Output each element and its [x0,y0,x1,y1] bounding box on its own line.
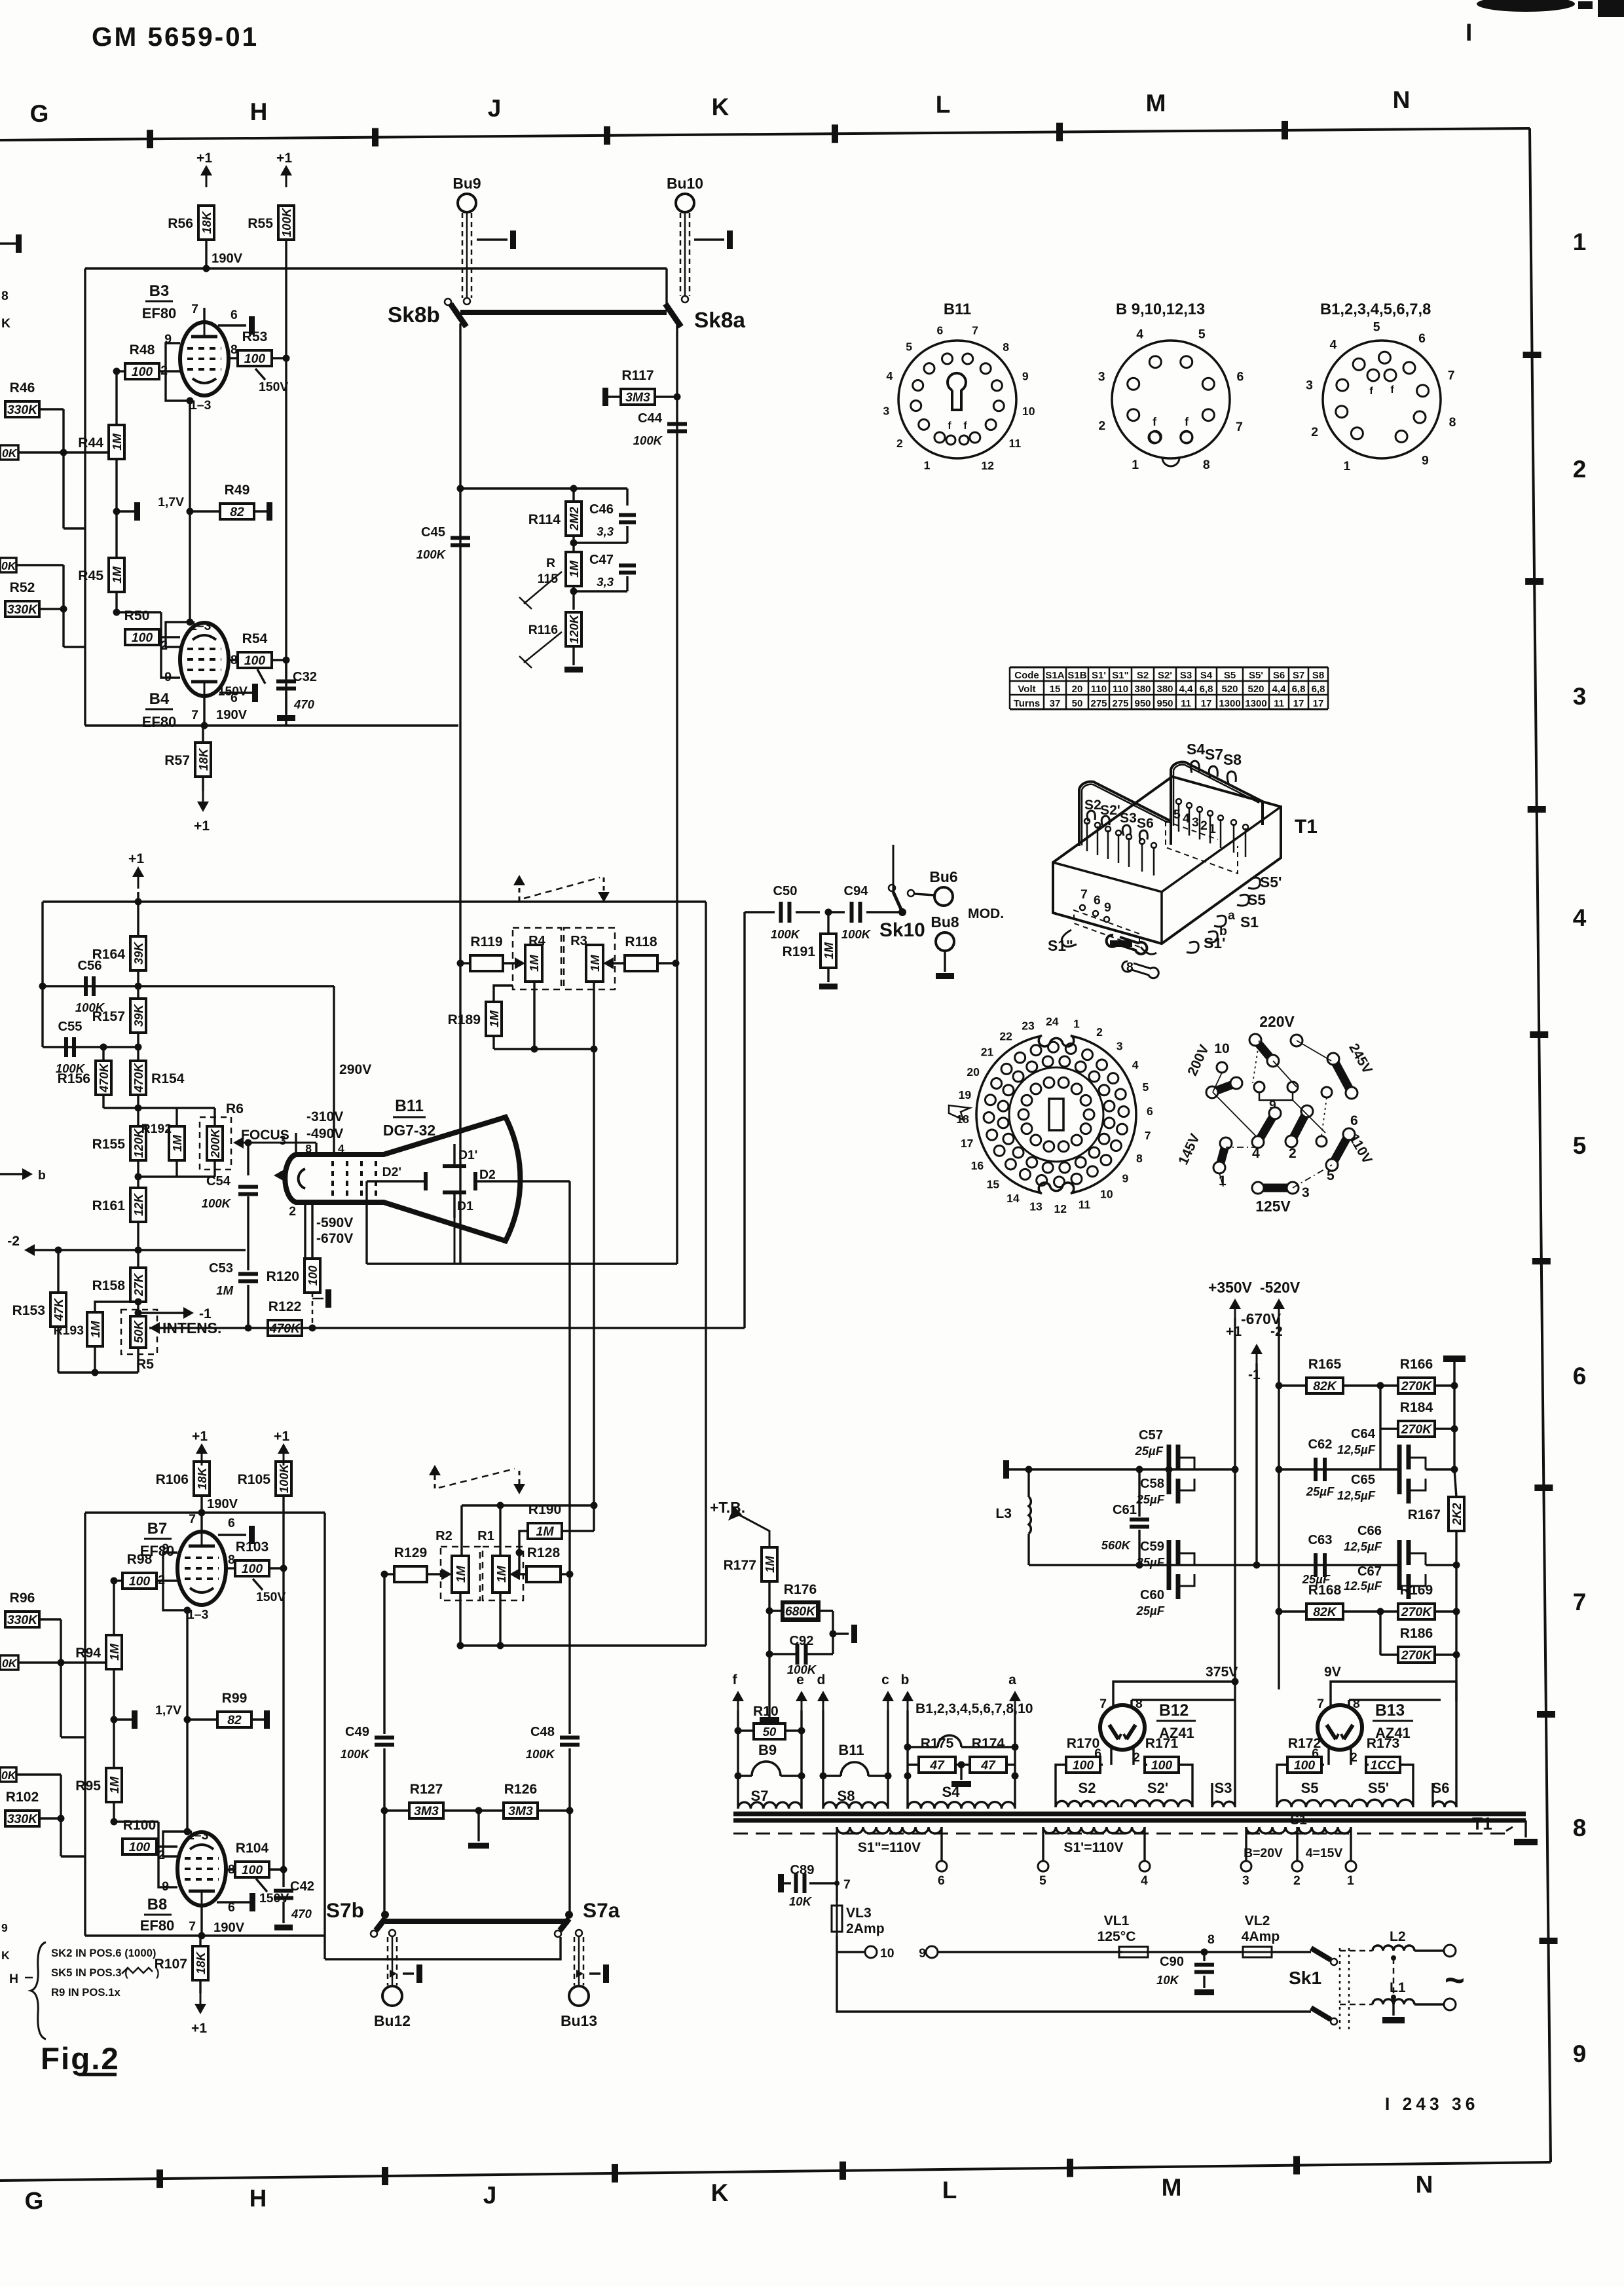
svg-text:B13: B13 [1375,1702,1405,1720]
svg-text:7: 7 [1448,368,1455,382]
svg-text:R49: R49 [225,483,250,498]
svg-text:B1,2,3,4,5,6,7,8: B1,2,3,4,5,6,7,8 [1320,301,1431,318]
svg-text:-310V: -310V [306,1109,343,1124]
node +1 left mid [138,876,139,889]
svg-text:H: H [9,1972,18,1986]
svg-text:3: 3 [279,1134,286,1148]
border right rule [1530,128,1551,2162]
border tick [1534,1484,1553,1491]
svg-text:1: 1 [924,459,931,472]
wire R96/R97 node [60,1619,62,1663]
svg-text:R95: R95 [75,1779,101,1794]
svg-text:R9 IN POS.1x: R9 IN POS.1x [51,1986,120,1999]
svg-text:3: 3 [1302,1185,1310,1200]
wire bottom node R153/R193/R5 [57,1327,59,1373]
svg-text:8: 8 [1003,341,1009,354]
svg-text:-490V: -490V [306,1126,343,1141]
svg-text:R96: R96 [10,1591,35,1606]
selector terminal top right [1291,1035,1302,1046]
capacitor C94 100K [828,911,845,913]
wire top rail bottom network [462,1504,594,1506]
capacitor C32 470 [285,660,287,678]
svg-text:R1: R1 [477,1529,494,1543]
svg-text:12K: 12K [132,1192,145,1216]
wire D2' drop [365,1181,367,1264]
terminal 10 [837,1951,864,1953]
svg-text:R176: R176 [784,1582,817,1597]
svg-text:12,5µF: 12,5µF [1337,1488,1376,1502]
svg-text:H: H [250,98,268,125]
svg-text:J: J [483,2182,497,2209]
svg-text:3M3: 3M3 [625,390,650,405]
svg-text:12.5µF: 12.5µF [1344,1579,1382,1593]
svg-text:R157: R157 [92,1009,125,1024]
shield Bu13 [574,1937,576,1985]
svg-text:100K: 100K [526,1747,556,1761]
resistor R98 100 [122,1573,157,1589]
svg-text:1M: 1M [536,1524,555,1539]
svg-text:3: 3 [883,404,889,417]
svg-text:560K: 560K [1101,1538,1132,1552]
svg-text:5: 5 [1142,1080,1149,1094]
resistor R104 100 [235,1862,269,1877]
socket B1-8 f pins [1367,369,1379,381]
svg-text:82K: 82K [1313,1605,1338,1619]
svg-text:19: 19 [959,1088,972,1101]
svg-text:L: L [936,91,951,118]
resistor R177 1M [762,1547,777,1581]
svg-text:2: 2 [1098,418,1105,433]
svg-text:S6: S6 [1432,1780,1450,1796]
svg-text:S1A: S1A [1045,670,1064,681]
resistor R46 330K [5,401,39,417]
svg-text:0K: 0K [1,559,17,572]
capacitor C56 100K on wire [43,985,334,987]
svg-text:100: 100 [132,365,153,379]
svg-text:S7b: S7b [326,1898,364,1922]
terminal 1 [1346,1861,1356,1871]
resistor R53 100 [238,350,272,366]
svg-text:K: K [711,2179,729,2206]
resistor R192 1M [169,1126,185,1160]
wire PSU row A [1008,1468,1235,1470]
svg-text:C67: C67 [1357,1564,1382,1579]
resistor R102 330K [5,1811,39,1826]
svg-text:R117: R117 [621,368,654,383]
shield Bu10 [680,213,682,296]
transformer T1 terminal pins left group [1086,822,1088,851]
svg-text:C56: C56 [77,959,101,973]
svg-text:4: 4 [1329,338,1337,352]
transformer core dashed [733,1833,1506,1835]
border bottom rule [0,2162,1551,2181]
winding S5' [1352,1799,1413,1807]
svg-text:0K: 0K [2,447,18,460]
svg-text:f: f [1369,386,1373,397]
transformer T1 right coil former [1171,762,1263,826]
svg-text:27K: 27K [132,1272,145,1297]
tube B12 anode leads [1112,1696,1114,1706]
svg-text:6: 6 [936,323,943,337]
svg-text:R165: R165 [1308,1357,1342,1372]
svg-text:12: 12 [981,459,994,472]
border tick [1530,1031,1548,1038]
wire sweep col B [743,912,745,1328]
resistor R57 18K [195,743,211,777]
svg-text:1M: 1M [170,1135,184,1152]
terminal 9 [926,1946,938,1958]
svg-text:R128: R128 [527,1545,561,1560]
svg-text:6,8: 6,8 [1312,684,1325,695]
svg-text:R174: R174 [972,1736,1005,1751]
socket B9 f pins [1149,432,1160,443]
capacitor C47 3.3 [619,564,636,568]
svg-text:S1"=110V: S1"=110V [858,1840,921,1855]
resistor R191 1M [821,934,836,968]
table transformer code [1010,667,1328,669]
connector key slot [1049,1099,1063,1130]
resistor R126 3M3 [504,1803,538,1818]
svg-text:R189: R189 [448,1012,481,1027]
svg-text:110: 110 [1091,684,1107,695]
svg-text:100: 100 [1151,1758,1173,1773]
svg-text:R: R [546,556,555,570]
svg-text:3: 3 [1192,815,1199,830]
svg-text:6: 6 [1094,893,1101,908]
resistor R107 18K [193,1946,208,1980]
svg-text:Volt: Volt [1018,684,1035,695]
ground stub right of Bu12 [390,1970,397,1978]
switch bar S7 [385,1919,569,1924]
winding S7 [738,1802,802,1809]
capacitor C54 100K [247,1143,249,1175]
svg-text:B 9,10,12,13: B 9,10,12,13 [1116,301,1205,318]
svg-text:S5': S5' [1368,1780,1389,1796]
winding S1 [1246,1827,1351,1834]
svg-text:C57: C57 [1139,1428,1163,1443]
svg-text:3,3: 3,3 [597,575,614,589]
svg-text:7: 7 [1236,420,1243,434]
selector bar 125V [1258,1184,1293,1192]
svg-text:C42: C42 [290,1879,314,1894]
svg-text:950: 950 [1156,698,1173,709]
wire R46/R47 node [62,409,64,452]
svg-text:39K: 39K [132,941,145,965]
svg-text:+1: +1 [192,1429,208,1444]
svg-text:f: f [948,420,951,432]
resistor R164 39K [130,936,146,970]
resistor R174 47 [970,1757,1006,1773]
svg-text:-590V: -590V [316,1215,353,1230]
svg-text:25µF: 25µF [1306,1484,1335,1498]
svg-text:5: 5 [1173,807,1181,822]
wire R115/R116 node [572,586,574,610]
svg-text:EF80: EF80 [142,305,177,322]
svg-text:+1: +1 [276,151,292,166]
svg-text:100K: 100K [416,547,447,561]
svg-text:S2': S2' [1158,670,1172,681]
svg-text:S1: S1 [1240,913,1259,931]
node below R155 group [137,1160,139,1188]
label FOCUS with arrow [233,1137,244,1149]
resistor R100 100 [122,1839,157,1854]
svg-text:1: 1 [1073,1017,1080,1030]
svg-text:1M: 1M [110,566,124,583]
svg-text:b: b [901,1672,910,1687]
wire INTENS row W_C [149,1322,160,1334]
svg-text:9: 9 [1573,2040,1587,2067]
svg-text:3: 3 [1573,683,1587,710]
svg-text:R184: R184 [1400,1400,1433,1415]
svg-text:R171: R171 [1145,1736,1179,1751]
svg-text:-670V: -670V [1241,1310,1282,1327]
switch Sk10 [898,908,906,916]
svg-text:190V: 190V [212,251,243,266]
ground stub at R44/R45 node [113,508,120,515]
svg-text:380: 380 [1156,684,1173,695]
svg-text:15: 15 [987,1177,1000,1190]
svg-text:8: 8 [1573,1815,1587,1841]
potentiometer R2 1M [441,1547,480,1600]
wire R45 to B4 grid [117,611,161,613]
svg-text:100: 100 [1294,1758,1316,1773]
svg-text:T1: T1 [1472,1814,1492,1834]
svg-text:L2: L2 [1390,1929,1406,1944]
svg-text:17: 17 [1201,698,1212,709]
svg-text:1M: 1M [88,1321,102,1338]
resistor R128 [526,1566,561,1582]
svg-text:S5': S5' [1249,670,1263,681]
svg-text:R186: R186 [1400,1626,1433,1641]
svg-text:Bu13: Bu13 [561,2012,597,2029]
svg-text:1M: 1M [110,433,124,451]
resistor R117 3M3 [602,388,608,406]
svg-text:S1B: S1B [1067,670,1086,681]
resistor R186 270K [1398,1647,1435,1663]
socket Bu6 [934,887,953,906]
svg-text:K: K [1,1949,10,1962]
svg-text:VL2: VL2 [1245,1913,1270,1928]
wire 375V link [1113,1682,1235,1696]
connector pins outer ring [1065,1043,1076,1054]
svg-text:1M: 1M [567,561,581,578]
resistor R54 100 [238,652,272,668]
ground stub at R94/R95 node [111,1716,118,1724]
wire deflection box bottom [460,1263,677,1264]
border top rule [0,128,1530,140]
border tick [1537,1711,1555,1718]
svg-text:a: a [1008,1672,1016,1687]
svg-text:520: 520 [1247,684,1264,695]
svg-text:S3: S3 [1120,811,1137,826]
svg-text:R158: R158 [92,1278,126,1293]
svg-text:1: 1 [1132,458,1139,472]
CRT cathode arc [299,1169,305,1189]
svg-text:EF80: EF80 [140,1917,175,1934]
svg-text:14: 14 [1006,1192,1020,1205]
wire left side of B3/B4 stage [84,268,86,726]
svg-text:B12: B12 [1159,1702,1189,1720]
svg-text:7: 7 [972,323,978,337]
svg-text:C92: C92 [789,1634,813,1648]
border tick [147,130,153,148]
svg-text:S5: S5 [1247,891,1266,908]
svg-text:10: 10 [1100,1188,1113,1201]
svg-text:4: 4 [1136,327,1143,341]
svg-text:50: 50 [1072,698,1083,709]
svg-text:C63: C63 [1308,1533,1332,1547]
svg-text:5: 5 [1373,320,1380,334]
svg-text:7: 7 [843,1877,851,1892]
resistor R120 100 [304,1259,320,1293]
svg-text:c: c [881,1672,889,1687]
svg-text:200K: 200K [208,1128,222,1158]
svg-text:4: 4 [886,369,893,382]
svg-text:C58: C58 [1140,1477,1164,1491]
selector bar 2 [1291,1111,1307,1141]
svg-text:275: 275 [1112,698,1128,709]
svg-text:Fig.2: Fig.2 [41,2042,120,2076]
potentiometer R4 1M [513,928,561,989]
svg-text:2: 2 [1096,1025,1103,1039]
transformer T1 mount tabs [1107,935,1147,954]
node +1 above R106 [201,1452,203,1466]
svg-text:11: 11 [1181,698,1191,709]
CRT deflection plate D2' [424,1172,428,1190]
svg-text:110: 110 [1113,684,1128,695]
resistor R55 100K [278,206,294,240]
svg-text:R106: R106 [156,1472,189,1487]
svg-text:190V: 190V [207,1497,238,1511]
winding S2 [1056,1801,1118,1807]
svg-text:100: 100 [129,1574,151,1589]
capacitor C50 100K [745,911,775,913]
svg-text:C89: C89 [790,1863,814,1877]
wire Sk8a drop [676,323,678,1264]
border tick [1282,121,1288,139]
capacitor C62 25uF [1279,1468,1399,1470]
svg-text:S4: S4 [1200,670,1213,681]
svg-text:270K: 270K [1401,1422,1433,1437]
svg-text:9: 9 [1,1921,8,1934]
resistor R95 1M [106,1768,122,1802]
terminal 3 [1241,1861,1251,1871]
svg-text:R166: R166 [1400,1357,1433,1372]
resistor R48 100 [125,363,159,379]
svg-text:3,3: 3,3 [597,525,614,538]
border tick [1525,578,1543,585]
svg-text:Sk8b: Sk8b [388,303,440,327]
svg-text:R10: R10 [753,1704,779,1719]
svg-text:100: 100 [129,1840,151,1854]
svg-text:S2': S2' [1100,803,1120,818]
resistor R47 fragment [0,445,18,460]
svg-text:N: N [1393,86,1411,113]
svg-text:100: 100 [242,1562,263,1576]
svg-text:B11: B11 [944,301,971,318]
svg-text:7: 7 [191,708,198,722]
svg-text:6,8: 6,8 [1292,684,1306,695]
resistor R103 100 [235,1560,269,1576]
svg-text:f: f [1153,415,1156,428]
svg-text:100K: 100K [280,207,293,237]
svg-text:4Amp: 4Amp [1242,1929,1280,1944]
winding S5 [1277,1800,1350,1807]
svg-text:2: 2 [289,1204,296,1219]
svg-text:R161: R161 [92,1198,126,1213]
svg-text:R99: R99 [222,1691,248,1706]
svg-text:2: 2 [896,437,903,450]
ground stub right of Bu13 [576,1970,583,1978]
svg-text:1M: 1M [487,1010,501,1027]
svg-text:18K: 18K [196,747,210,771]
svg-text:C64: C64 [1351,1427,1376,1441]
svg-text:C94: C94 [843,884,868,898]
svg-text:330K: 330K [7,1812,39,1826]
border tick [1056,123,1063,141]
grid return wire B4 [166,622,190,647]
svg-text:f: f [1185,415,1189,428]
grid return wire B3 [166,343,190,401]
capacitor C46 3.3 [626,489,628,506]
svg-text:3M3: 3M3 [414,1804,439,1818]
resistor R96 330K [5,1612,39,1627]
CRT deflection plate D1' [443,1164,466,1168]
transformer T1 left coil former [1079,782,1171,846]
svg-text:S6: S6 [1137,816,1154,831]
svg-text:270K: 270K [1401,1379,1433,1393]
node +1 above R105 [283,1452,285,1466]
shield Bu9 [462,213,464,298]
capacitor C42 470 [282,1870,284,1887]
resistor R129 [394,1566,427,1582]
wire R114/R115 node [572,536,574,552]
svg-text:f: f [963,420,967,432]
wire sweep col A [705,902,707,1646]
svg-text:4: 4 [338,1142,344,1155]
CRT deflection plate D1 [443,1190,466,1194]
socket Bu9 [458,194,476,212]
svg-text:7: 7 [189,1919,196,1934]
svg-text:1: 1 [1344,459,1351,473]
svg-text:+350V: +350V [1208,1279,1253,1296]
resistor R161 12K [130,1188,146,1222]
svg-text:3: 3 [1116,1040,1123,1053]
svg-text:C47: C47 [589,553,614,567]
svg-text:470K: 470K [132,1062,145,1093]
svg-text:R44: R44 [78,435,103,451]
svg-text:2: 2 [1573,456,1587,483]
node -1 branch [137,1302,139,1318]
svg-text:S6: S6 [1273,670,1285,681]
svg-text:R48: R48 [130,342,155,358]
svg-text:6: 6 [938,1873,945,1888]
ground top right PSU [1443,1355,1466,1362]
svg-text:275: 275 [1090,698,1107,709]
svg-text:B=20V: B=20V [1244,1846,1283,1860]
svg-text:D2': D2' [382,1165,401,1179]
svg-text:-520V: -520V [1260,1279,1301,1296]
svg-text:MOD.: MOD. [968,906,1004,921]
svg-text:39K: 39K [132,1003,145,1027]
switch bar Sk8 [460,310,667,315]
wire top rail row4 [43,900,706,902]
potentiometer R116 120K [566,612,581,646]
resistor R184 270K [1398,1421,1435,1437]
winding S3 [1212,1801,1235,1807]
switch Sk8a [665,304,681,327]
svg-text:R53: R53 [242,329,268,344]
